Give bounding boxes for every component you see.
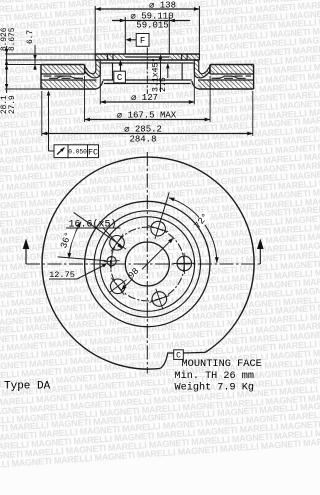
pin hole 12.75 (104, 253, 120, 269)
svg-text:284.8: 284.8 (129, 135, 156, 145)
dimension 6.7 (27, 30, 37, 70)
hat interior ceiling line (101, 62, 194, 64)
svg-text:Type DA: Type DA (4, 381, 51, 393)
bottom right text (175, 358, 262, 394)
svg-text:⌀ 285.2: ⌀ 285.2 (124, 125, 162, 135)
label 16.6x5 (66, 218, 123, 248)
dimension d138 (95, 1, 199, 55)
bolt hole 5 (108, 234, 126, 251)
svg-text:C: C (176, 352, 181, 361)
datum F box (125, 34, 149, 47)
hat interior lower line (104, 83, 191, 85)
flange bolt hole left (108, 54, 114, 60)
svg-text:Weight 7.9 Kg: Weight 7.9 Kg (175, 381, 254, 393)
bolt hole 4 (109, 278, 127, 295)
front view vertical centerline (146, 152, 148, 374)
dimension 98 bolt circle (121, 238, 173, 290)
hat interior wall left (112, 63, 114, 80)
right vent vanes (212, 76, 252, 78)
left vent vanes (44, 76, 84, 78)
svg-text:0.050: 0.050 (68, 149, 87, 156)
label 12.75 (49, 263, 108, 280)
dimension 8.926/8.675 (1, 27, 17, 93)
svg-text:36°: 36° (58, 230, 74, 249)
svg-text:27.9: 27.9 (9, 95, 17, 114)
bore chamfer line (125, 56, 169, 58)
dimension d127 (100, 64, 194, 105)
bolt hole 1 (148, 218, 168, 239)
section arrow left (23, 239, 30, 265)
top band inner edge left (84, 65, 86, 75)
section center axis (146, 48, 148, 95)
hat interior floor line (103, 79, 192, 81)
friction ring right outline (192, 65, 254, 90)
section arrow right (257, 239, 264, 265)
svg-text:2.5: 2.5 (159, 77, 168, 92)
circle d127 (100, 217, 195, 312)
section hatching (41, 54, 254, 89)
hat flange outline (95, 54, 199, 60)
svg-text:FC: FC (88, 148, 98, 158)
circle d167.5 (85, 201, 210, 326)
friction ring left outline (41, 65, 103, 90)
dimension d285.2/284.8 (42, 91, 253, 145)
datum C box (114, 60, 126, 83)
bore circle d59 (125, 242, 169, 286)
dimension d59.110/59.015 (112, 12, 190, 55)
dimension d167.5 (85, 76, 211, 122)
dimension 28.1/27.9 (1, 65, 17, 115)
type label (4, 381, 51, 393)
note 3.1x45 chamfer (152, 54, 163, 92)
svg-text:59.015: 59.015 (136, 21, 168, 31)
note 2.5 (159, 63, 169, 92)
svg-text:⌀ 127: ⌀ 127 (131, 93, 158, 103)
top band inner edge right (209, 65, 211, 75)
dimension 72 deg (161, 192, 219, 262)
hat interior wall right (181, 63, 183, 80)
flange bolt hole right (182, 54, 188, 60)
svg-text:8.675: 8.675 (9, 27, 17, 51)
bolt circle d98 (110, 227, 184, 301)
bolt hole 2 (173, 253, 195, 274)
datum C tag on outer circle (160, 350, 205, 369)
svg-text:C: C (117, 73, 123, 83)
front view horizontal centerline (26, 263, 260, 265)
circle d138 (94, 211, 200, 317)
svg-text:6.7: 6.7 (27, 30, 35, 44)
outer circle d285 (42, 157, 254, 369)
runout frame 0.050 FC (47, 91, 99, 158)
svg-text:⌀ 167.5 MAX: ⌀ 167.5 MAX (117, 111, 177, 121)
svg-text:Min. TH 26 mm: Min. TH 26 mm (175, 370, 254, 382)
bolt hole 3 (149, 289, 169, 310)
svg-text:⌀ 138: ⌀ 138 (149, 1, 176, 11)
left extension lines (5, 54, 95, 89)
svg-text:MOUNTING FACE: MOUNTING FACE (182, 358, 262, 370)
svg-text:F: F (140, 36, 145, 46)
dimension 36 deg (58, 212, 110, 260)
